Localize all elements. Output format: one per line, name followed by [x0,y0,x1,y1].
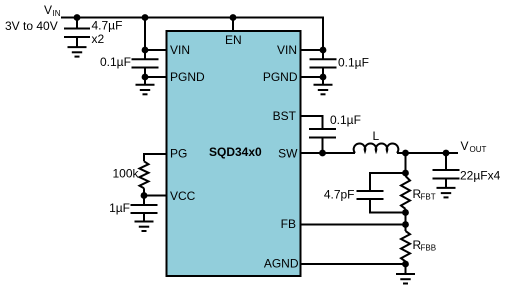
svg-text:IN: IN [53,9,61,18]
svg-text:PGND: PGND [263,70,298,84]
svg-text:VCC: VCC [170,189,196,203]
svg-text:4.7pF: 4.7pF [324,188,355,202]
svg-text:V: V [461,139,469,153]
svg-text:EN: EN [225,33,242,47]
svg-text:FBB: FBB [421,244,437,253]
svg-text:22µFx4: 22µFx4 [460,169,501,183]
svg-text:V: V [44,3,52,17]
svg-text:SQD34x0: SQD34x0 [209,145,262,159]
svg-text:0.1µF: 0.1µF [338,56,369,70]
svg-text:FBT: FBT [421,193,436,202]
svg-text:VIN: VIN [277,43,297,57]
svg-text:PGND: PGND [170,70,205,84]
svg-text:PG: PG [170,147,187,161]
svg-text:1µF: 1µF [109,201,130,215]
svg-text:100k: 100k [112,167,139,181]
svg-text:0.1µF: 0.1µF [330,113,361,127]
svg-text:FB: FB [281,217,296,231]
svg-text:BST: BST [273,109,297,123]
svg-text:SW: SW [278,147,298,161]
svg-text:0.1µF: 0.1µF [100,55,131,69]
svg-text:AGND: AGND [264,257,299,271]
svg-text:L: L [373,129,380,143]
svg-text:3V to 40V: 3V to 40V [5,19,58,33]
svg-text:x2: x2 [92,32,105,46]
svg-text:VIN: VIN [170,43,190,57]
svg-text:4.7µF: 4.7µF [92,19,123,33]
svg-text:OUT: OUT [470,145,487,154]
